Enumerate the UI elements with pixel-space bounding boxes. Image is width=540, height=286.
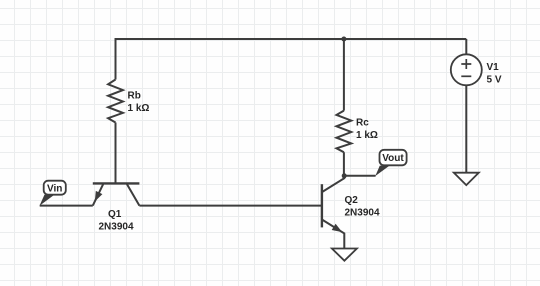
net flag Vout: [375, 150, 406, 176]
net flag Vin: [40, 181, 66, 206]
wire top rail: [116, 38, 467, 40]
svg-text:V1: V1: [487, 62, 500, 73]
wire junction to Vout flag: [344, 175, 375, 177]
resistor Rc: [337, 111, 378, 153]
wire Vin to Q1 emitter: [40, 205, 93, 207]
node junction top rail / Rc branch: [341, 37, 346, 42]
voltage source V1: [451, 39, 502, 86]
svg-text:5 V: 5 V: [487, 75, 502, 86]
wire Rb top lead: [115, 38, 117, 80]
svg-text:1 kΩ: 1 kΩ: [128, 103, 150, 114]
wire Rc bottom lead: [343, 152, 345, 176]
svg-text:Rc: Rc: [356, 118, 369, 129]
wire Rb bottom lead: [115, 123, 117, 184]
resistor Rb: [108, 80, 149, 123]
transistor Q2 2N3904: [322, 176, 380, 249]
svg-text:2N3904: 2N3904: [99, 222, 134, 233]
transistor Q1 2N3904: [93, 183, 140, 232]
ground under Q2: [332, 249, 357, 261]
wire V1 to ground: [465, 85, 467, 172]
svg-text:Rb: Rb: [128, 91, 141, 102]
svg-text:Q1: Q1: [108, 209, 122, 220]
wire Q1 collector to Q2 base: [139, 205, 322, 207]
svg-text:Vin: Vin: [47, 183, 62, 194]
wire Rc top lead: [343, 39, 345, 111]
ground under V1: [454, 173, 479, 185]
svg-text:Vout: Vout: [382, 153, 404, 164]
svg-text:1 kΩ: 1 kΩ: [356, 130, 378, 141]
node junction Rc / Q2 collector / Vout: [342, 173, 347, 178]
svg-text:Q2: Q2: [345, 195, 359, 206]
svg-text:2N3904: 2N3904: [345, 208, 380, 219]
